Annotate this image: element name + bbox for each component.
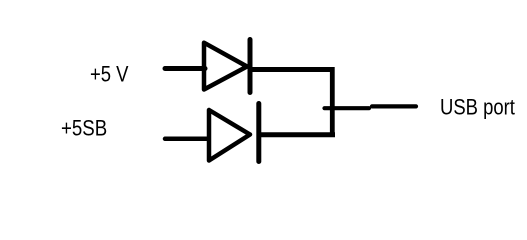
- wire: +5SB anode lead: [165, 137, 207, 142]
- diode D1 (top) triangle: [204, 43, 247, 90]
- wire: D1 cathode to right corner: [250, 67, 332, 72]
- wire: D2 cathode to right corner: [259, 132, 335, 137]
- svg-text:USB port: USB port: [440, 96, 515, 120]
- wire: right vertical bus: [330, 67, 335, 135]
- node: junction stub on bus: [325, 106, 370, 110]
- diode D2 cathode bar: [256, 104, 261, 162]
- svg-text:+5 V: +5 V: [90, 63, 129, 87]
- wire: +5V anode lead: [165, 66, 205, 71]
- diode D1 cathode bar: [248, 40, 253, 93]
- wire: output lead to USB port: [372, 104, 416, 108]
- svg-text:+5SB: +5SB: [61, 117, 107, 141]
- diode D2 (bottom) triangle: [209, 110, 250, 161]
